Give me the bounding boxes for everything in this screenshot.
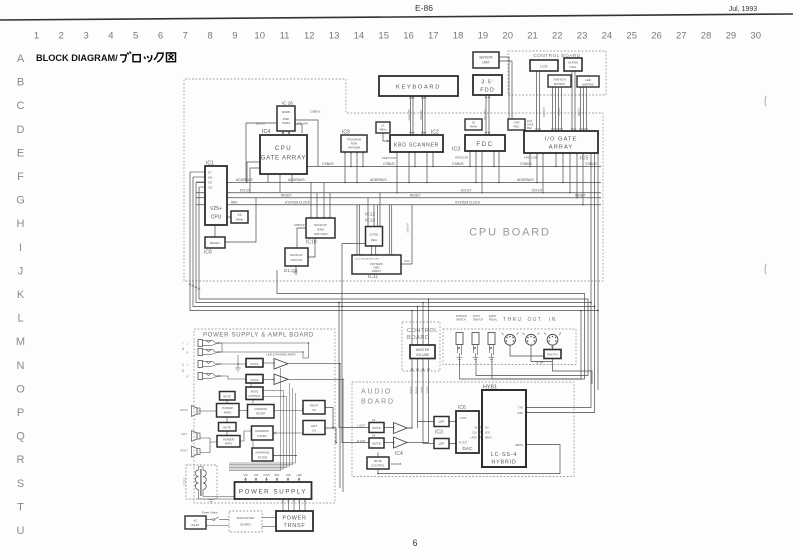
- svg-text:CH: CH: [312, 408, 316, 412]
- svg-text:19: 19: [478, 31, 489, 42]
- svg-text:Q: Q: [16, 431, 25, 443]
- svg-text:BOARD: BOARD: [361, 399, 395, 406]
- svg-text:V20: V20: [254, 474, 259, 477]
- svg-text:THRU: THRU: [503, 317, 523, 323]
- svg-text:WORK: WORK: [282, 110, 291, 114]
- svg-text:KEYSCN: KEYSCN: [407, 110, 411, 121]
- svg-text:REG: REG: [371, 238, 377, 242]
- svg-text:3.5': 3.5': [481, 80, 494, 86]
- svg-text:K: K: [17, 289, 25, 301]
- svg-text:RESET: RESET: [281, 194, 292, 198]
- svg-text:ADDRBUS: ADDRBUS: [370, 178, 387, 182]
- svg-text:F: F: [17, 171, 24, 183]
- svg-text:SRCK: SRCK: [485, 437, 492, 440]
- svg-text:R OUT: R OUT: [357, 439, 366, 443]
- svg-text:IC24: IC24: [537, 361, 544, 365]
- svg-text:MUTE: MUTE: [251, 390, 259, 394]
- svg-text:POWER: POWER: [222, 406, 233, 410]
- svg-text:LPF: LPF: [439, 420, 445, 424]
- svg-text:FILTER: FILTER: [256, 412, 265, 416]
- svg-text:6: 6: [412, 538, 417, 548]
- svg-text:O: O: [16, 383, 25, 395]
- svg-text:A: A: [17, 53, 25, 65]
- svg-text:SCK: SCK: [485, 432, 490, 435]
- svg-text:LC-SS-4: LC-SS-4: [491, 452, 517, 458]
- svg-text:PsRM: PsRM: [282, 121, 290, 125]
- svg-text:POWER SUPPLY: POWER SUPPLY: [239, 489, 307, 496]
- svg-text:10: 10: [254, 31, 265, 42]
- svg-text:27: 27: [676, 31, 687, 42]
- svg-text:DI: DI: [475, 427, 478, 430]
- svg-text:D: D: [17, 124, 25, 136]
- svg-text:RIGHT: RIGHT: [180, 450, 188, 453]
- svg-text:+15D: +15D: [296, 474, 302, 477]
- svg-text:MASTER: MASTER: [416, 348, 430, 352]
- svg-text:Power Switch: Power Switch: [202, 511, 218, 515]
- svg-text:13: 13: [329, 31, 340, 42]
- svg-text:3: 3: [83, 31, 88, 42]
- svg-text:SWMX: SWMX: [557, 108, 560, 116]
- svg-text:D1,Q2: D1,Q2: [284, 268, 298, 273]
- svg-text:INLET: INLET: [192, 523, 200, 527]
- svg-text:4MHz: 4MHz: [470, 125, 478, 129]
- svg-text:CLK: CLK: [472, 432, 477, 435]
- svg-text:HIGHPASS: HIGHPASS: [255, 429, 269, 433]
- svg-text:AMPL: AMPL: [224, 411, 232, 415]
- svg-text:BLOCK DIAGRAM/: BLOCK DIAGRAM/: [36, 53, 118, 63]
- svg-text:BACKUP: BACKUP: [314, 223, 326, 227]
- svg-text:HYBRID: HYBRID: [491, 460, 516, 466]
- svg-text:LOWPASS: LOWPASS: [254, 407, 267, 411]
- svg-text:16: 16: [403, 31, 414, 42]
- svg-text:X2D: X2D: [208, 188, 213, 190]
- svg-text:LCDCOM: LCDCOM: [542, 107, 545, 117]
- svg-text:17: 17: [428, 31, 439, 42]
- svg-text:RXD: RXD: [518, 411, 524, 415]
- svg-text:DIAL: DIAL: [570, 65, 577, 69]
- svg-text:J: J: [18, 265, 24, 277]
- svg-text:INT: INT: [208, 173, 212, 175]
- svg-text:M: M: [16, 336, 25, 348]
- svg-text:POWER: POWER: [282, 516, 306, 522]
- svg-text:TXD: TXD: [518, 406, 523, 410]
- svg-text:IC10: IC10: [306, 240, 317, 246]
- svg-text:IC8: IC8: [204, 250, 212, 256]
- svg-text:IC14: IC14: [404, 259, 410, 263]
- svg-text:R: R: [187, 352, 189, 355]
- svg-text:29: 29: [726, 31, 737, 42]
- svg-text:RESET: RESET: [410, 194, 421, 198]
- svg-text:IC12: IC12: [365, 212, 375, 218]
- svg-text:28: 28: [701, 31, 712, 42]
- svg-text:IC 26: IC 26: [282, 101, 293, 106]
- svg-text:BACKUP: BACKUP: [290, 253, 302, 257]
- svg-text:MUTE: MUTE: [374, 459, 382, 463]
- svg-text:LEFT: LEFT: [311, 424, 318, 428]
- svg-text:LED: LED: [585, 78, 592, 82]
- svg-text:FDD CBL: FDD CBL: [483, 109, 487, 121]
- svg-text:IC2: IC2: [431, 130, 439, 136]
- svg-text:14: 14: [354, 31, 365, 42]
- svg-text:V30: V30: [243, 474, 248, 477]
- svg-text:2: 2: [59, 31, 64, 42]
- svg-text:128K PsRM: 128K PsRM: [314, 232, 328, 236]
- svg-text:26: 26: [651, 31, 662, 42]
- svg-text:25: 25: [626, 31, 637, 42]
- svg-text:1: 1: [34, 31, 39, 42]
- svg-text:IC1: IC1: [206, 161, 214, 167]
- svg-text:ARRAY: ARRAY: [549, 145, 574, 151]
- svg-text:MUTE: MUTE: [372, 426, 381, 430]
- svg-text:SWITCH: SWITCH: [473, 319, 483, 322]
- svg-text:SWITCH: SWITCH: [553, 78, 565, 82]
- svg-text:H: H: [17, 218, 25, 230]
- svg-text:CIRCUIT: CIRCUIT: [290, 258, 302, 262]
- svg-text:ALPHA: ALPHA: [568, 61, 579, 65]
- svg-text:SWITCH: SWITCH: [456, 319, 466, 322]
- svg-text:T: T: [17, 501, 24, 513]
- svg-text:6: 6: [158, 31, 163, 42]
- svg-text:C: C: [17, 100, 25, 112]
- svg-text:KBD SCANNER: KBD SCANNER: [394, 143, 439, 149]
- svg-text:N: N: [17, 360, 25, 372]
- svg-text:HYB1: HYB1: [483, 385, 497, 391]
- svg-text:CSBUS: CSBUS: [520, 162, 532, 166]
- svg-text:FDD: FDD: [480, 88, 495, 94]
- svg-text:U: U: [17, 525, 25, 537]
- svg-text:MUTE: MUTE: [251, 378, 259, 382]
- svg-text:15: 15: [378, 31, 389, 42]
- svg-text:SYSTEM CLOCK: SYSTEM CLOCK: [455, 200, 481, 204]
- svg-text:GATE ARRAY: GATE ARRAY: [261, 156, 306, 162]
- svg-text:HFDCC3#: HFDCC3#: [455, 156, 468, 160]
- svg-text:IC5: IC5: [580, 156, 588, 162]
- svg-text:NMI: NMI: [208, 178, 213, 180]
- svg-text:DAC: DAC: [462, 446, 473, 452]
- svg-text:RIGHT: RIGHT: [310, 404, 319, 408]
- svg-text:IC3: IC3: [435, 430, 443, 436]
- svg-text:CONTROL: CONTROL: [248, 394, 261, 398]
- svg-text:SO: SO: [485, 427, 489, 430]
- svg-text:IC11: IC11: [368, 274, 378, 280]
- svg-text:R OUT: R OUT: [459, 441, 467, 445]
- svg-text:4MHz: 4MHz: [379, 128, 387, 132]
- svg-text:HKYOFF: HKYOFF: [406, 223, 409, 233]
- svg-text:VCC5: VCC5: [263, 474, 270, 477]
- svg-text:PHOTO: PHOTO: [547, 353, 558, 357]
- svg-text:CPU BOARD: CPU BOARD: [469, 227, 551, 239]
- svg-text:FILTER: FILTER: [257, 434, 266, 438]
- svg-text:RAM: RAM: [317, 228, 324, 232]
- svg-text:DO-D7: DO-D7: [256, 122, 266, 126]
- svg-text:REC: REC: [514, 125, 520, 129]
- svg-text:IN: IN: [549, 317, 557, 323]
- svg-text:L OUT: L OUT: [357, 424, 365, 428]
- svg-text:IC9: IC9: [342, 130, 350, 136]
- svg-text:G: G: [16, 195, 25, 207]
- svg-text:IC4: IC4: [262, 129, 270, 135]
- svg-text:DO-D7 A16-A19 RD WR: DO-D7 A16-A19 RD WR: [355, 258, 379, 261]
- svg-text:MUTE: MUTE: [223, 395, 231, 399]
- svg-text:P: P: [17, 407, 24, 419]
- svg-text:LEDMX: LEDMX: [577, 108, 580, 117]
- svg-text:TRNSF: TRNSF: [284, 523, 306, 529]
- svg-text:E: E: [17, 147, 24, 159]
- svg-text:IC13: IC13: [365, 218, 375, 224]
- svg-text:MUTE: MUTE: [372, 442, 381, 446]
- svg-text:DN6068: DN6068: [391, 462, 402, 466]
- svg-text:MATRIX: MATRIX: [582, 83, 593, 87]
- svg-text:L: L: [17, 313, 23, 325]
- svg-text:I: I: [19, 242, 22, 254]
- svg-text:4MHz: 4MHz: [236, 218, 244, 222]
- svg-text:LRCK: LRCK: [471, 437, 478, 440]
- svg-text:ADDRBUS: ADDRBUS: [236, 178, 253, 182]
- svg-text:MAIN FILTER: MAIN FILTER: [237, 516, 254, 520]
- svg-text:L&R & PHONES AMPS: L&R & PHONES AMPS: [266, 353, 295, 357]
- svg-text:V25+: V25+: [210, 206, 222, 212]
- svg-text:CSBUS: CSBUS: [452, 162, 464, 166]
- svg-text:30: 30: [750, 31, 761, 42]
- svg-text:PROGRAM: PROGRAM: [347, 138, 362, 142]
- svg-text:24: 24: [602, 31, 613, 42]
- svg-text:11: 11: [280, 31, 290, 42]
- svg-text:MATRIX: MATRIX: [554, 82, 565, 86]
- svg-text:VDD-: VDD-: [274, 474, 280, 477]
- svg-text:FDC: FDC: [476, 141, 493, 148]
- svg-text:MUTE: MUTE: [223, 426, 231, 430]
- svg-text:CONTROL: CONTROL: [371, 464, 385, 468]
- svg-text:OUT: OUT: [528, 317, 543, 323]
- svg-text:IC6: IC6: [458, 405, 466, 411]
- svg-text:KEYBOARD: KEYBOARD: [396, 85, 441, 91]
- svg-text:E-86: E-86: [415, 3, 433, 13]
- svg-text:RESET: RESET: [210, 241, 220, 245]
- svg-text:SGNL: SGNL: [420, 387, 423, 394]
- svg-text:VRMA: VRMA: [409, 387, 412, 394]
- svg-text:MRCS: MRCS: [515, 443, 523, 447]
- svg-text:4M PgRM: 4M PgRM: [348, 146, 361, 150]
- svg-text:CSBUS: CSBUS: [383, 162, 395, 166]
- svg-text:MUTE: MUTE: [251, 362, 259, 366]
- svg-text:DO-D7: DO-D7: [240, 188, 251, 192]
- svg-text:CH: CH: [312, 429, 316, 433]
- svg-text:SGNR: SGNR: [426, 387, 429, 394]
- svg-text:L OUT: L OUT: [459, 416, 467, 420]
- svg-text:AC: AC: [194, 519, 198, 523]
- svg-text:SENSOR: SENSOR: [479, 56, 493, 60]
- svg-text:HKBKUP: HKBKUP: [294, 223, 305, 227]
- svg-text:KHDCC3#: KHDCC3#: [524, 156, 538, 160]
- svg-text:RESET: RESET: [575, 194, 586, 198]
- svg-text:DO-D7: DO-D7: [461, 188, 472, 192]
- svg-text:MONO: MONO: [180, 409, 188, 412]
- svg-text:KEYSW: KEYSW: [419, 110, 423, 120]
- svg-text:I/O GATE: I/O GATE: [545, 137, 578, 143]
- svg-text:WD WR: WD WR: [297, 122, 309, 126]
- svg-text:LPF: LPF: [439, 442, 445, 446]
- svg-text:BOARD: BOARD: [407, 335, 429, 341]
- svg-text:PEDAL: PEDAL: [489, 319, 498, 322]
- svg-text:R: R: [187, 376, 189, 379]
- svg-text:R: R: [17, 454, 25, 466]
- svg-text:8MC: 8MC: [231, 200, 238, 204]
- svg-text:LCD: LCD: [540, 65, 548, 69]
- svg-text:POWER SUPPLY & AMPL BOARD: POWER SUPPLY & AMPL BOARD: [203, 333, 314, 339]
- svg-text:ARRAY: ARRAY: [372, 269, 382, 273]
- svg-text:4: 4: [108, 31, 113, 42]
- svg-text:I: I: [183, 341, 184, 345]
- svg-text:E30,Z,D: E30,Z,D: [183, 478, 186, 487]
- svg-text:20: 20: [502, 31, 513, 42]
- svg-text:IC3: IC3: [452, 147, 460, 153]
- svg-text:7: 7: [183, 31, 188, 42]
- svg-text:CSBUS: CSBUS: [322, 162, 334, 166]
- svg-text:Jul, 1993: Jul, 1993: [729, 6, 758, 13]
- svg-text:BOARD: BOARD: [241, 523, 251, 527]
- svg-text:21: 21: [527, 31, 538, 42]
- svg-text:CNTRL: CNTRL: [369, 233, 379, 237]
- svg-text:S: S: [17, 478, 24, 490]
- svg-text:CSBUS: CSBUS: [310, 110, 320, 114]
- svg-text:CPU: CPU: [275, 146, 292, 152]
- svg-text:-15D: -15D: [285, 474, 290, 477]
- svg-text:18: 18: [453, 31, 464, 42]
- svg-text:HIGHPASS: HIGHPASS: [256, 451, 270, 455]
- svg-text:LEFT: LEFT: [181, 433, 187, 436]
- svg-text:AUDIO: AUDIO: [361, 389, 392, 396]
- svg-text:ROM: ROM: [351, 142, 358, 146]
- svg-text:12: 12: [304, 31, 315, 42]
- svg-text:ADDRBUS: ADDRBUS: [517, 178, 534, 182]
- svg-text:CPU: CPU: [211, 215, 222, 221]
- svg-text:5: 5: [133, 31, 138, 42]
- svg-text:8: 8: [207, 31, 212, 42]
- svg-text:ADDRBUS: ADDRBUS: [288, 178, 305, 182]
- svg-text:23: 23: [577, 31, 588, 42]
- svg-text:CONTROL: CONTROL: [407, 328, 438, 334]
- svg-text:P20: P20: [208, 183, 213, 185]
- svg-text:KKEYCOM: KKEYCOM: [382, 156, 397, 160]
- svg-text:AMPL: AMPL: [225, 442, 233, 446]
- svg-text:UNIT: UNIT: [482, 61, 489, 65]
- svg-text:IC4: IC4: [395, 451, 403, 457]
- svg-text:9: 9: [232, 31, 237, 42]
- svg-text:VOLUME: VOLUME: [416, 353, 429, 357]
- svg-text:REC: REC: [527, 127, 532, 130]
- svg-text:22: 22: [552, 31, 563, 42]
- svg-text:DO-D7: DO-D7: [532, 188, 543, 192]
- svg-text:SYSTEM CLOCK: SYSTEM CLOCK: [285, 200, 311, 204]
- svg-text:VRMB: VRMB: [415, 387, 418, 394]
- svg-text:FILTER: FILTER: [258, 456, 267, 460]
- svg-text:B: B: [17, 77, 24, 89]
- svg-text:X3: X3: [237, 213, 241, 217]
